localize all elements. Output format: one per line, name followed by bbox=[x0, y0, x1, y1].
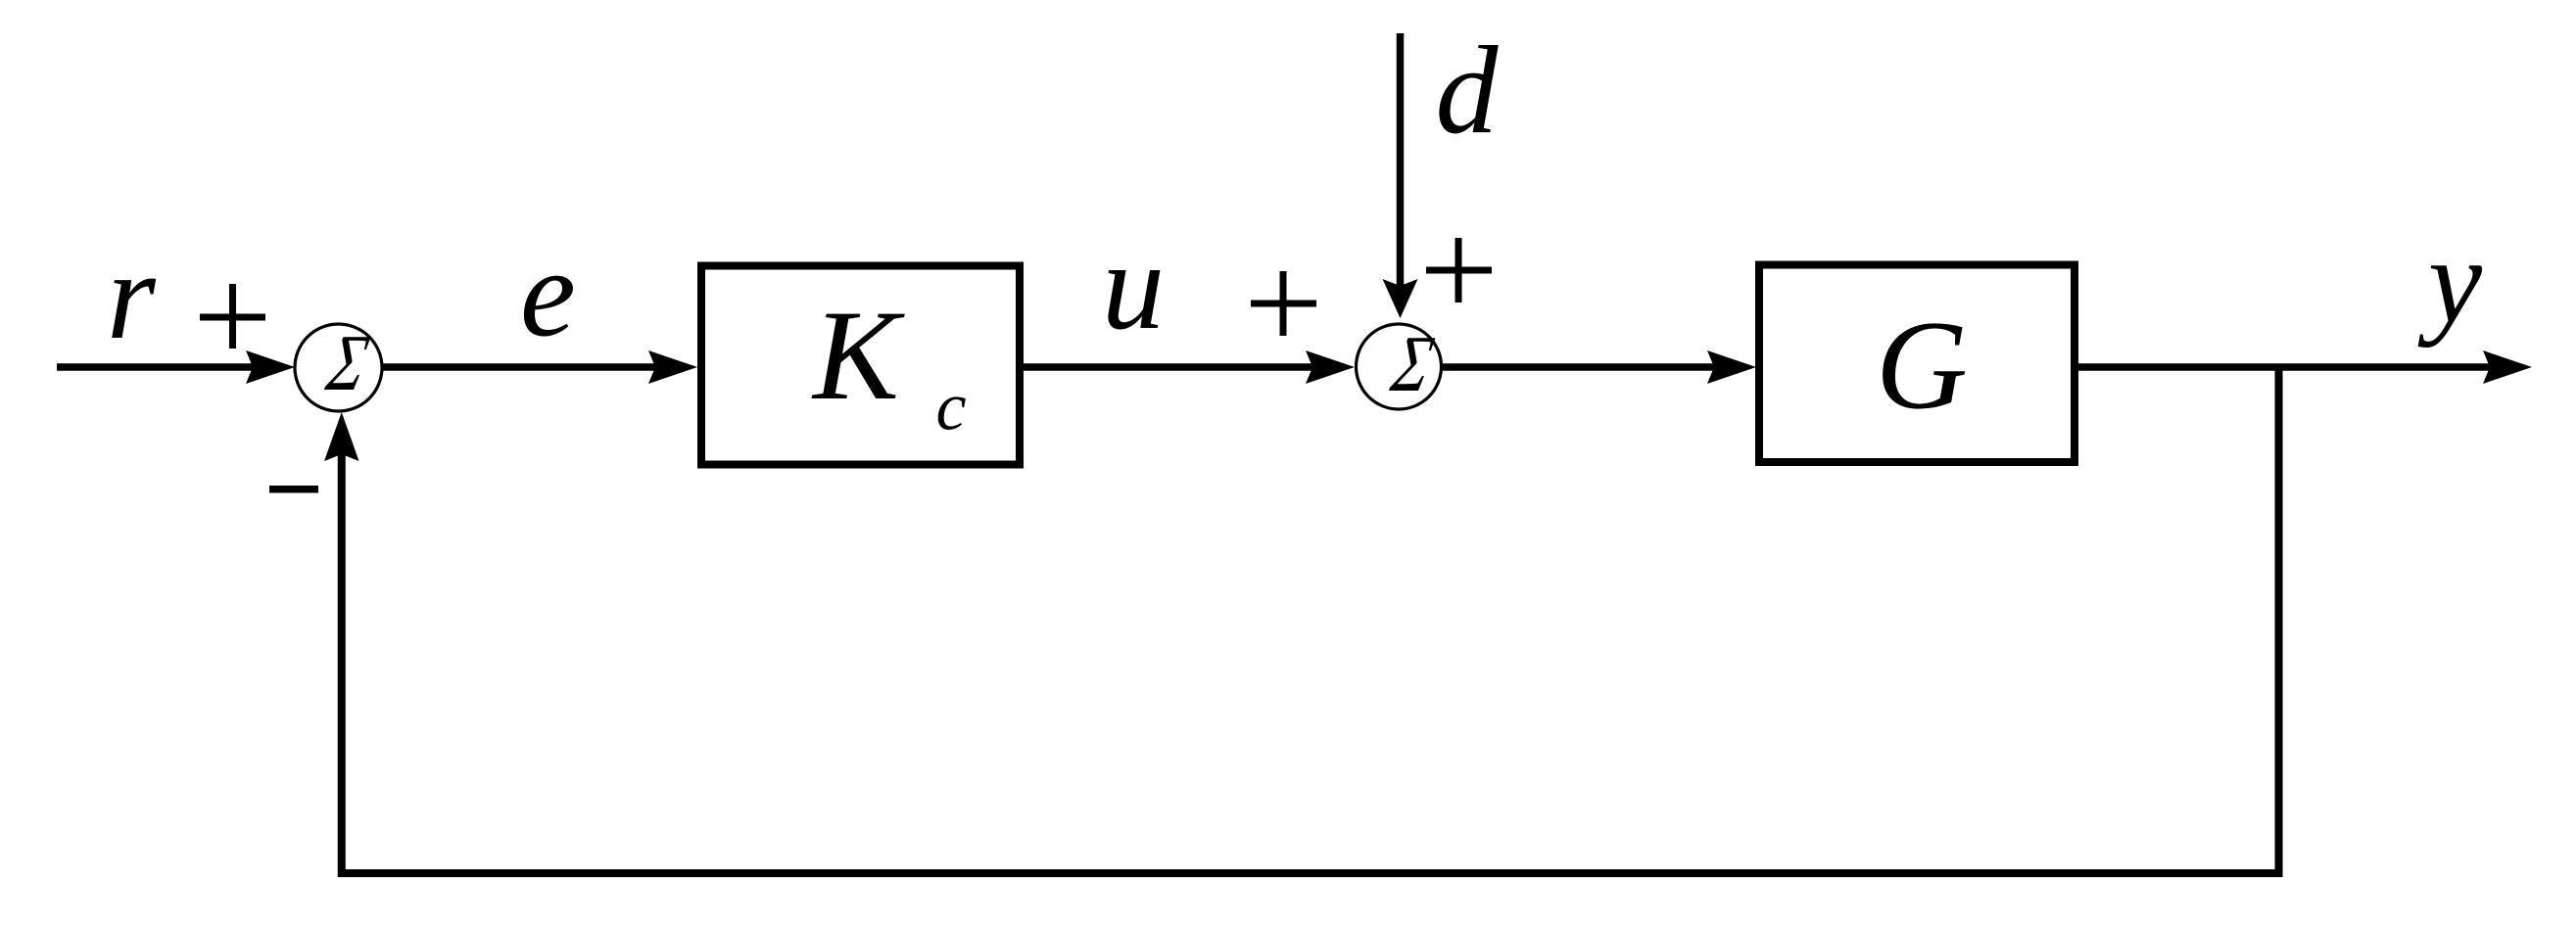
svg-text:r: r bbox=[107, 226, 157, 365]
wire feedback path bbox=[342, 367, 2279, 873]
wire r input bbox=[57, 363, 253, 371]
svg-text:y: y bbox=[2417, 213, 2483, 348]
arrowhead into Kc bbox=[648, 350, 697, 384]
wire e from S1 to Kc bbox=[382, 363, 656, 371]
wire from S2 to G bbox=[1441, 363, 1719, 371]
svg-text:u: u bbox=[1102, 216, 1165, 355]
plant block G box bbox=[1759, 265, 2075, 463]
plus sign at summing junction S1 bbox=[200, 284, 265, 349]
wire u from Kc to S2 bbox=[1024, 363, 1317, 371]
controller block Kc box bbox=[701, 266, 1020, 465]
wire y output bbox=[2078, 363, 2494, 371]
arrowhead into S2 from left bbox=[1306, 350, 1355, 384]
summing junction S2 bbox=[1357, 319, 1442, 409]
arrowhead output y bbox=[2483, 350, 2532, 384]
plus sign above S2 bbox=[1426, 238, 1492, 302]
arrowhead feedback into S1 from below bbox=[324, 412, 359, 461]
arrowhead into S1 bbox=[246, 350, 295, 384]
arrowhead into S2 from top bbox=[1383, 279, 1418, 318]
arrowhead into G bbox=[1707, 350, 1756, 384]
minus sign at S1 feedback bbox=[269, 486, 318, 493]
svg-text:c: c bbox=[936, 370, 967, 445]
svg-text:G: G bbox=[1876, 296, 1968, 437]
svg-text:K: K bbox=[811, 283, 905, 427]
svg-text:e: e bbox=[520, 224, 576, 363]
plus sign left of S2 bbox=[1251, 271, 1316, 336]
summing junction S1 bbox=[295, 318, 382, 411]
svg-text:d: d bbox=[1436, 21, 1500, 160]
wire d disturbance input bbox=[1397, 33, 1405, 286]
